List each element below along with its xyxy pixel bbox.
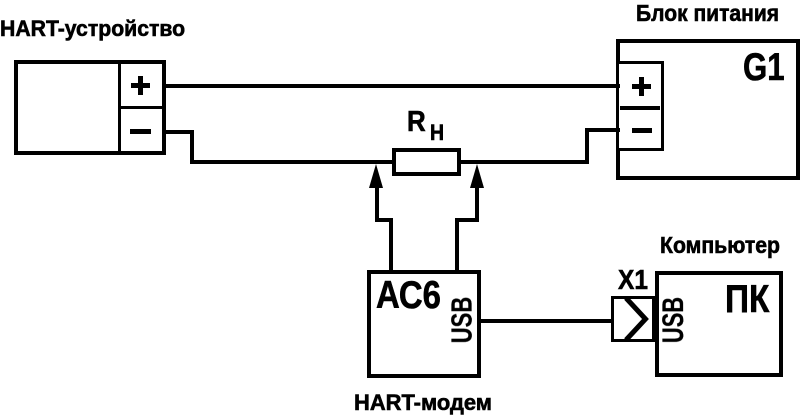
connector X1 body <box>611 296 655 342</box>
label ПК <box>725 281 769 320</box>
HART device minus terminal <box>130 129 151 134</box>
wire: left arrow shaft <box>375 185 379 222</box>
HART modem box AC6 <box>367 270 481 378</box>
label АС6 <box>376 277 441 316</box>
label USB on AC6 (rotated) <box>448 297 477 344</box>
HART device terminal cell divider <box>121 106 162 109</box>
label HART-модем <box>354 392 492 414</box>
wire: lower wire right of resistor <box>457 160 589 164</box>
G1 terminal cell divider <box>620 106 660 110</box>
G1 minus terminal <box>632 128 652 133</box>
label Компьютер <box>660 234 780 257</box>
label G1 <box>743 49 785 88</box>
G1 plus terminal <box>632 84 652 89</box>
label X1 <box>618 266 648 294</box>
wire: right arrow drop to AC6 <box>455 218 459 271</box>
HART device box <box>14 60 166 155</box>
wire: AC6 USB to X1 connector <box>481 319 612 323</box>
connector X1 chevron <box>611 296 655 342</box>
wire: HART minus stub <box>166 130 194 134</box>
label H subscript <box>430 122 444 144</box>
wire: step down from HART minus <box>190 130 194 164</box>
G1 terminal box <box>616 61 664 151</box>
computer box ПК <box>655 271 783 377</box>
arrowhead left (to lower wire) <box>369 164 383 188</box>
label Блок питания <box>636 2 779 25</box>
HART device plus terminal <box>131 83 150 88</box>
wire: right arrow shaft <box>475 185 479 222</box>
label USB on PK (rotated) <box>659 297 689 343</box>
wire: step up to G1 minus <box>585 128 589 164</box>
arrowhead right (to lower wire) <box>470 164 484 188</box>
wire: HART plus to G1 plus (top wire) <box>166 84 620 88</box>
wire: stub into G1 minus <box>585 128 620 132</box>
wire: left arrow drop to AC6 <box>389 218 393 271</box>
label R <box>407 108 426 137</box>
wire: right arrow jog <box>455 218 480 222</box>
resistor RH <box>392 148 461 176</box>
label HART-устройство <box>0 18 185 40</box>
HART device terminal column divider <box>118 64 122 151</box>
wire: left arrow jog <box>375 218 393 222</box>
wire: lower wire left of resistor <box>190 160 395 164</box>
power supply box G1 <box>616 39 801 180</box>
